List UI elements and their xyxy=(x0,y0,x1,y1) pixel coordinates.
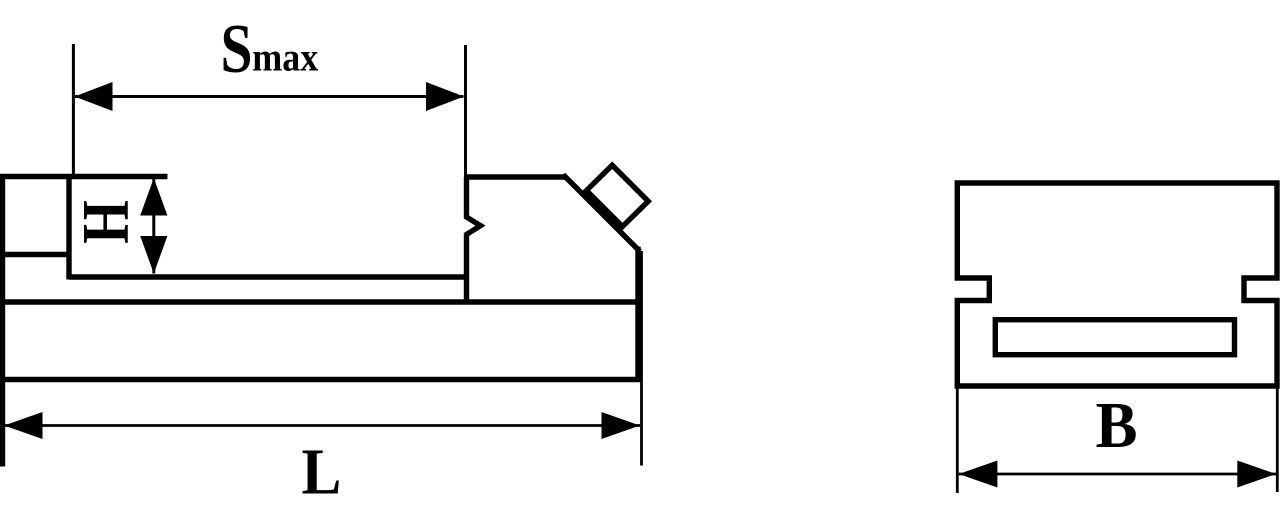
L right arrowhead xyxy=(602,412,641,439)
movable jaw / base right edge xyxy=(635,247,640,382)
fixed jaw step line xyxy=(0,252,72,257)
svg-text:H: H xyxy=(69,200,143,244)
H down arrowhead xyxy=(140,236,167,274)
fixed jaw top surface xyxy=(0,174,168,179)
guide slot rectangle xyxy=(995,320,1234,355)
screw head diamond (rotated square on diagonal face) xyxy=(587,165,649,226)
body top line xyxy=(955,180,1280,185)
L dimension line xyxy=(4,424,640,427)
svg-text:S: S xyxy=(221,10,253,88)
body right edge lower segment xyxy=(1274,298,1279,389)
svg-text:max: max xyxy=(252,36,318,80)
B right extension line xyxy=(1276,389,1279,493)
movable jaw left edge with thread-break notch xyxy=(467,177,481,304)
movable jaw top surface xyxy=(464,174,566,179)
wire: filler along diamond lower-left edge over diagonal xyxy=(587,194,623,230)
left T-slot notch xyxy=(955,278,990,301)
B left arrowhead xyxy=(959,461,998,488)
right T-slot notch xyxy=(1244,278,1280,301)
body bottom line xyxy=(955,383,1280,388)
body left edge (continues down as L extension line) xyxy=(0,174,5,467)
H dimension line xyxy=(152,178,155,274)
body left edge lower segment xyxy=(955,298,960,389)
svg-text:B: B xyxy=(1096,388,1138,462)
B left extension line xyxy=(956,389,959,494)
Smax right extension line xyxy=(464,45,467,177)
base bottom line xyxy=(0,377,641,382)
base top line xyxy=(0,299,641,304)
Smax left extension line xyxy=(72,44,75,177)
movable jaw 45-degree diagonal face xyxy=(563,175,640,252)
Smax dimension line xyxy=(75,95,464,98)
fixed jaw block right edge xyxy=(66,177,71,280)
B dimension line xyxy=(959,473,1276,476)
L left arrowhead xyxy=(4,412,43,439)
B right arrowhead xyxy=(1237,461,1276,488)
sliding surface (ways) line xyxy=(69,274,469,279)
body right edge upper segment xyxy=(1274,181,1279,281)
L right extension line xyxy=(640,251,643,466)
svg-text:L: L xyxy=(302,435,342,508)
body left edge upper segment xyxy=(955,181,960,281)
H up arrowhead xyxy=(140,178,167,216)
Smax right arrowhead xyxy=(426,82,464,111)
Smax left arrowhead xyxy=(75,82,113,111)
